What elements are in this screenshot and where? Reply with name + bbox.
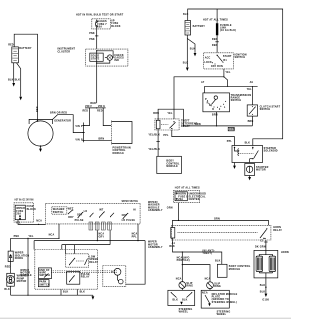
wire: junction to indicator lamp bbox=[97, 51, 113, 58]
svg-text:BLK: BLK bbox=[80, 291, 86, 294]
label WASHER PUMP MOTOR bbox=[17, 275, 29, 283]
wire: YEL bypass to ground bus bbox=[27, 238, 28, 296]
wire: module grounds bbox=[11, 289, 93, 295]
svg-text:RELAY: RELAY bbox=[89, 261, 98, 264]
wire pump ground bbox=[10, 286, 12, 295]
svg-text:THEFT): THEFT) bbox=[202, 252, 212, 255]
svg-text:BRN: BRN bbox=[248, 120, 254, 123]
svg-text:STEERING WHEEL): STEERING WHEEL) bbox=[212, 301, 237, 304]
wire diode to pump bbox=[10, 262, 12, 274]
svg-text:BATTERY: BATTERY bbox=[19, 47, 32, 50]
svg-text:BLK: BLK bbox=[8, 78, 14, 81]
svg-text:YEL: YEL bbox=[225, 71, 231, 74]
svg-text:BRN: BRN bbox=[195, 123, 201, 126]
svg-text:BRN OR RED: BRN OR RED bbox=[50, 112, 67, 115]
generator connector line bbox=[82, 123, 84, 143]
svg-text:SWITCH: SWITCH bbox=[235, 56, 246, 59]
svg-text:SOLENOID: SOLENOID bbox=[264, 150, 278, 153]
svg-text:A9: A9 bbox=[250, 81, 254, 84]
wire: drop to left slip ring bbox=[181, 252, 183, 282]
horn fuse box bbox=[175, 192, 188, 201]
svg-text:RELAY: RELAY bbox=[181, 125, 190, 128]
washer pump motor bbox=[7, 273, 15, 286]
label NCA PPL bbox=[132, 232, 138, 238]
washer switch contacts bbox=[68, 208, 74, 220]
wire BRN to PCM bbox=[84, 139, 112, 141]
body control module box TR bbox=[157, 156, 182, 173]
svg-text:RED: RED bbox=[83, 110, 89, 113]
svg-text:PPL: PPL bbox=[227, 140, 233, 143]
transmission range switch box bbox=[203, 93, 230, 112]
horn assembly box bbox=[254, 250, 278, 278]
ignition switch contacts bbox=[204, 55, 232, 69]
svg-text:RING: RING bbox=[214, 285, 221, 288]
generator bbox=[28, 119, 53, 146]
wire: relay contact to horn DK GRN bbox=[264, 240, 267, 250]
node bbox=[182, 251, 183, 252]
slip ring left bbox=[179, 282, 186, 289]
svg-text:OFF: OFF bbox=[77, 214, 83, 217]
svg-text:HOT IN RUN, BULB TEST OR START: HOT IN RUN, BULB TEST OR START bbox=[76, 14, 124, 17]
switch terminal boxes bbox=[89, 222, 111, 230]
svg-text:SWITCH: SWITCH bbox=[260, 108, 271, 111]
label WIPER ISOLATION DIODE bbox=[15, 252, 30, 260]
label left margin (motor assembly) bbox=[148, 241, 163, 249]
label TRANSMISSION RANGE SWITCH bbox=[231, 94, 252, 102]
wire: lamp return to main line bbox=[97, 60, 110, 63]
svg-text:PNK: PNK bbox=[14, 235, 20, 238]
label left margin (module assembly) bbox=[148, 201, 163, 212]
wire: YEL bus to switches bbox=[205, 85, 258, 87]
washer switch sub-box bbox=[52, 207, 67, 214]
svg-text:YEL/BLK: YEL/BLK bbox=[148, 134, 160, 137]
ignition switch dashed box bbox=[204, 53, 234, 69]
ground arrow left bbox=[12, 83, 15, 87]
low speed relay box bbox=[66, 254, 89, 267]
end of wipe switch box bbox=[38, 268, 51, 279]
svg-text:BLK: BLK bbox=[182, 299, 188, 302]
label FUSE BLOCK bbox=[27, 205, 37, 211]
wiper motor assembly dashed box bbox=[103, 266, 126, 287]
svg-text:WHEEL: WHEEL bbox=[179, 311, 189, 314]
svg-text:G108: G108 bbox=[262, 299, 269, 302]
svg-text:PNK: PNK bbox=[89, 32, 95, 35]
svg-text:BLK: BLK bbox=[260, 291, 266, 294]
ground arrow BL bbox=[92, 295, 95, 300]
fuse GAGES FUSE 7 10A bbox=[96, 20, 108, 29]
svg-text:ORN: ORN bbox=[167, 206, 173, 209]
label THEFT DETERRENT RELAY bbox=[181, 120, 198, 128]
node bbox=[227, 86, 228, 87]
svg-text:WET: WET bbox=[68, 208, 74, 211]
label LOW SPEED RELAY bbox=[89, 255, 98, 263]
svg-text:DIODE: DIODE bbox=[15, 257, 24, 260]
svg-text:C1: C1 bbox=[260, 240, 264, 243]
svg-text:BATTERY: BATTERY bbox=[193, 25, 206, 28]
wiper fuse box bbox=[15, 205, 25, 220]
wire: bus drop to TRS bbox=[204, 86, 206, 93]
svg-text:10A: 10A bbox=[97, 25, 102, 28]
node: TRS BRN junction bbox=[216, 125, 217, 126]
horn relay dashed box bbox=[172, 225, 271, 240]
svg-text:ACC: ACC bbox=[205, 56, 211, 59]
svg-text:BLK: BLK bbox=[245, 142, 251, 145]
label SLIP RING left bbox=[186, 282, 193, 288]
label STARTER MOTOR bbox=[256, 166, 269, 172]
powertrain control module box bbox=[112, 121, 133, 145]
svg-text:PNK: PNK bbox=[89, 38, 95, 41]
wire: main line through cluster down bbox=[96, 51, 98, 103]
svg-text:OFF: OFF bbox=[122, 214, 128, 217]
wire: relay contact to solenoid PPL bbox=[172, 130, 235, 146]
wire: relay coil to BCM YEL/BLK bbox=[156, 129, 159, 157]
wiper switch dashed box bbox=[46, 203, 140, 224]
wire: split to two red drops bbox=[84, 108, 112, 126]
park switch box bbox=[38, 280, 50, 287]
underhood electrical center dashed box bbox=[174, 190, 200, 202]
label NCA GRY bbox=[99, 232, 105, 238]
connector bar labels VIN F / VIN E bbox=[85, 105, 106, 108]
wire: fusible link to ignition switch bbox=[215, 35, 218, 53]
label STARTER SOLENOID bbox=[264, 147, 278, 153]
svg-text:GRY: GRY bbox=[99, 235, 105, 238]
svg-text:BLK: BLK bbox=[169, 245, 175, 248]
svg-text:HOT AT ALL TIMES: HOT AT ALL TIMES bbox=[175, 186, 200, 189]
svg-text:B1: B1 bbox=[223, 59, 227, 62]
wire: ignition output YEL bbox=[174, 69, 228, 119]
svg-text:IND: IND bbox=[114, 59, 119, 62]
wire: wash output drop bbox=[58, 224, 60, 238]
svg-text:A7: A7 bbox=[201, 81, 205, 84]
fusible link bbox=[216, 9, 218, 35]
svg-text:VIN B: VIN B bbox=[75, 139, 82, 142]
svg-text:RELAY: RELAY bbox=[273, 229, 282, 232]
wire: branch to right slip ring bbox=[182, 265, 210, 282]
label SLIP RING right bbox=[214, 282, 221, 288]
svg-text:DK GRN: DK GRN bbox=[255, 245, 266, 248]
svg-text:BLK: BLK bbox=[173, 299, 179, 302]
starter solenoid box bbox=[232, 146, 263, 163]
svg-text:NCA: NCA bbox=[49, 233, 55, 236]
label IGNITION SWITCH bbox=[235, 53, 247, 59]
ground arrow G108 bbox=[262, 294, 269, 302]
svg-text:BLK: BLK bbox=[63, 291, 69, 294]
svg-text:VIN F: VIN F bbox=[75, 125, 82, 128]
svg-text:START: START bbox=[223, 55, 232, 58]
horn relay contact bbox=[178, 228, 268, 239]
wire: relay coil feed bbox=[173, 220, 179, 227]
svg-text:NCA: NCA bbox=[36, 220, 42, 223]
wiper mode contacts middle bbox=[90, 208, 115, 217]
svg-text:NCA: NCA bbox=[205, 278, 211, 281]
theft deterrent relay dashed box bbox=[155, 119, 179, 130]
svg-text:PPL: PPL bbox=[163, 134, 169, 137]
svg-text:PONTIAC): PONTIAC) bbox=[177, 259, 190, 262]
svg-text:20A: 20A bbox=[178, 198, 183, 201]
wire: fuse ORN to horn relay bbox=[179, 203, 269, 226]
wire: battery top feed bbox=[14, 34, 37, 121]
svg-text:BLK: BLK bbox=[183, 13, 189, 16]
label INFLATOR MODULE PLATE bbox=[212, 293, 238, 304]
svg-text:ORN: ORN bbox=[214, 217, 220, 220]
ORN tag box bbox=[228, 127, 235, 131]
label CHECK GAGES IND bbox=[114, 54, 124, 62]
svg-text:CENTER: CENTER bbox=[189, 198, 200, 201]
horn right bbox=[269, 255, 276, 273]
svg-text:BLK: BLK bbox=[260, 284, 266, 287]
svg-text:BLOCK: BLOCK bbox=[27, 208, 37, 211]
label HORN RELAY bbox=[273, 226, 282, 232]
label PULSE RELAY bbox=[81, 273, 90, 279]
battery TL bbox=[12, 47, 19, 63]
battery TR bbox=[185, 21, 191, 36]
wiper isolation diode bbox=[8, 238, 13, 261]
instrument cluster dashed box bbox=[86, 49, 128, 66]
fuse block dashed box BL bbox=[14, 203, 34, 222]
svg-text:OFF RUN: OFF RUN bbox=[211, 65, 223, 68]
label STEERING WHEEL left bbox=[179, 308, 193, 314]
svg-text:WIPER SWITCH: WIPER SWITCH bbox=[122, 200, 139, 203]
bus wire lower bbox=[62, 244, 110, 246]
battery loop wire bbox=[188, 9, 283, 146]
label w/o pontiac tag bbox=[177, 256, 190, 262]
svg-text:SWITCH: SWITCH bbox=[53, 211, 64, 214]
node bus junctions bbox=[97, 240, 139, 241]
svg-text:YEL/BLK: YEL/BLK bbox=[148, 148, 160, 151]
clutch start switch box bbox=[247, 105, 257, 116]
wire: fuse to instrument cluster bbox=[95, 29, 98, 49]
svg-text:MODULE: MODULE bbox=[20, 274, 32, 277]
svg-text:INT: INT bbox=[99, 208, 104, 211]
svg-text:PPL: PPL bbox=[132, 235, 138, 238]
svg-text:LO PULSE: LO PULSE bbox=[122, 219, 136, 222]
wire: bus drop to clutch switch bbox=[251, 86, 253, 105]
label BODY CONTROL MODULE bbox=[229, 265, 251, 271]
svg-text:RED: RED bbox=[8, 44, 14, 47]
svg-text:HOT IN ACC OR RUN: HOT IN ACC OR RUN bbox=[15, 198, 34, 201]
wire: TRS output BRN bbox=[216, 112, 218, 126]
svg-text:YEL: YEL bbox=[167, 112, 173, 115]
horn relay coil bbox=[171, 228, 175, 239]
wire: battery negative to grounds bbox=[14, 63, 21, 97]
wire: PNK to washer pump diode bbox=[11, 237, 59, 239]
wire: clutch switch output BRN bbox=[251, 116, 253, 126]
svg-text:D: D bbox=[212, 108, 214, 111]
label FUSIBLE LINK (16 GA BLK) bbox=[220, 24, 236, 32]
theft relay contact bbox=[161, 121, 176, 129]
wire: BRN loop to relay coil bbox=[158, 109, 252, 126]
node bbox=[178, 220, 179, 221]
svg-text:SWITCH: SWITCH bbox=[231, 99, 242, 102]
svg-text:RELAY: RELAY bbox=[81, 276, 90, 279]
horn left bbox=[256, 255, 263, 273]
svg-text:WHEEL: WHEEL bbox=[217, 313, 227, 316]
label STEERING WHEEL right bbox=[217, 310, 231, 316]
svg-text:ORN: ORN bbox=[229, 128, 235, 131]
svg-text:BLOCK: BLOCK bbox=[111, 25, 121, 28]
svg-text:BLK: BLK bbox=[4, 288, 10, 291]
svg-text:BLK: BLK bbox=[183, 62, 189, 65]
wire: horn ground bbox=[265, 278, 266, 294]
label CLUTCH START SWITCH bbox=[260, 105, 281, 111]
svg-text:MOTOR: MOTOR bbox=[17, 280, 27, 283]
svg-text:ASSEMBLY: ASSEMBLY bbox=[148, 209, 163, 212]
solid state box bbox=[90, 53, 103, 61]
label WIPER MOTOR MODULE (left) bbox=[20, 269, 32, 277]
svg-text:CLUSTER: CLUSTER bbox=[58, 50, 71, 53]
svg-text:YEL: YEL bbox=[247, 88, 253, 91]
starter motor bbox=[245, 164, 255, 176]
node: lamp return junction bbox=[96, 63, 97, 64]
svg-text:MODULE: MODULE bbox=[166, 165, 178, 168]
wiper mode contacts left bbox=[75, 210, 88, 222]
svg-text:LOCK: LOCK bbox=[204, 61, 212, 64]
wire: generator output BRN OR RED bbox=[53, 115, 84, 133]
wiper mode contacts right bbox=[122, 209, 137, 222]
node: cluster feed junction bbox=[96, 50, 97, 51]
wiper motor module dashed box bbox=[35, 250, 98, 290]
svg-text:RED: RED bbox=[212, 44, 218, 47]
label anti-theft tag bbox=[202, 249, 214, 255]
svg-text:BLK: BLK bbox=[215, 259, 221, 262]
page edge line bbox=[0, 317, 291, 319]
ground arrow (branch) bbox=[194, 53, 197, 56]
svg-text:RED: RED bbox=[212, 38, 218, 41]
label I/P FUSE BLOCK bbox=[111, 20, 121, 28]
svg-text:HOT AT ALL TIMES: HOT AT ALL TIMES bbox=[203, 18, 228, 21]
solenoid case ground bbox=[233, 163, 236, 170]
slip ring right bbox=[207, 282, 214, 289]
node: feed junction bbox=[38, 224, 39, 225]
svg-text:HI: HI bbox=[133, 209, 136, 212]
svg-text:GENERATOR: GENERATOR bbox=[54, 119, 71, 122]
svg-text:YEL: YEL bbox=[28, 235, 34, 238]
label INSTRUMENT CLUSTER bbox=[58, 47, 76, 53]
theft relay coil bbox=[156, 120, 160, 129]
wire: fuse YEL to wiper switch bbox=[18, 220, 46, 225]
svg-text:BRN: BRN bbox=[212, 114, 218, 117]
svg-text:RING: RING bbox=[186, 285, 193, 288]
inflator module plate box bbox=[201, 289, 229, 308]
wire battery negative bbox=[187, 35, 195, 67]
svg-text:LO: LO bbox=[84, 210, 88, 213]
bus wire upper bbox=[34, 240, 145, 242]
ground arrow (main) bbox=[186, 68, 189, 72]
indicator lamp (charge) bbox=[105, 55, 113, 60]
wire: switch drops to buses bbox=[97, 224, 138, 245]
svg-text:YEL: YEL bbox=[16, 222, 22, 225]
svg-text:NCA: NCA bbox=[202, 292, 208, 295]
generator ground bbox=[39, 145, 42, 152]
svg-text:HORN: HORN bbox=[281, 251, 289, 254]
svg-text:DRY: DRY bbox=[68, 216, 74, 219]
svg-text:BRN: BRN bbox=[99, 138, 105, 141]
svg-text:BRN: BRN bbox=[153, 112, 159, 115]
starter motor ground bbox=[248, 176, 251, 181]
linkage dotted lines bbox=[52, 271, 117, 273]
svg-text:RED: RED bbox=[5, 265, 11, 268]
svg-text:25A: 25A bbox=[16, 213, 21, 216]
svg-text:(16 GA BLK): (16 GA BLK) bbox=[220, 29, 236, 32]
wire: relay coil output BLK bbox=[173, 238, 222, 264]
svg-text:SWITCH: SWITCH bbox=[39, 283, 50, 286]
fuse block I/P dashed box bbox=[92, 19, 111, 29]
ground arrow right bbox=[19, 97, 22, 101]
label POWERTRAIN CONTROL MODULE bbox=[113, 147, 131, 155]
svg-text:NCA: NCA bbox=[176, 278, 182, 281]
wire: bus drops into module bbox=[34, 241, 74, 254]
svg-text:MODULE: MODULE bbox=[113, 152, 125, 155]
svg-text:ASSEMBLY: ASSEMBLY bbox=[148, 246, 163, 249]
svg-text:BLK: BLK bbox=[15, 78, 21, 81]
svg-text:N: N bbox=[209, 104, 211, 107]
label UNDERHOOD ELECTRICAL CENTER bbox=[189, 193, 207, 201]
wire: right feed to motor assembly bbox=[126, 241, 145, 285]
svg-text:RED: RED bbox=[36, 106, 39, 112]
svg-text:MODULE: MODULE bbox=[229, 268, 241, 271]
body control module box BR bbox=[217, 264, 227, 277]
steering wheel horn pad box bbox=[168, 288, 195, 305]
pulse relay box bbox=[67, 272, 80, 285]
svg-text:PULSE: PULSE bbox=[75, 219, 84, 222]
svg-text:STATE: STATE bbox=[91, 58, 100, 61]
svg-text:RED: RED bbox=[97, 110, 103, 113]
wiper motor bbox=[111, 268, 123, 284]
svg-text:BLK: BLK bbox=[190, 48, 196, 51]
svg-text:MOTOR: MOTOR bbox=[256, 169, 266, 172]
